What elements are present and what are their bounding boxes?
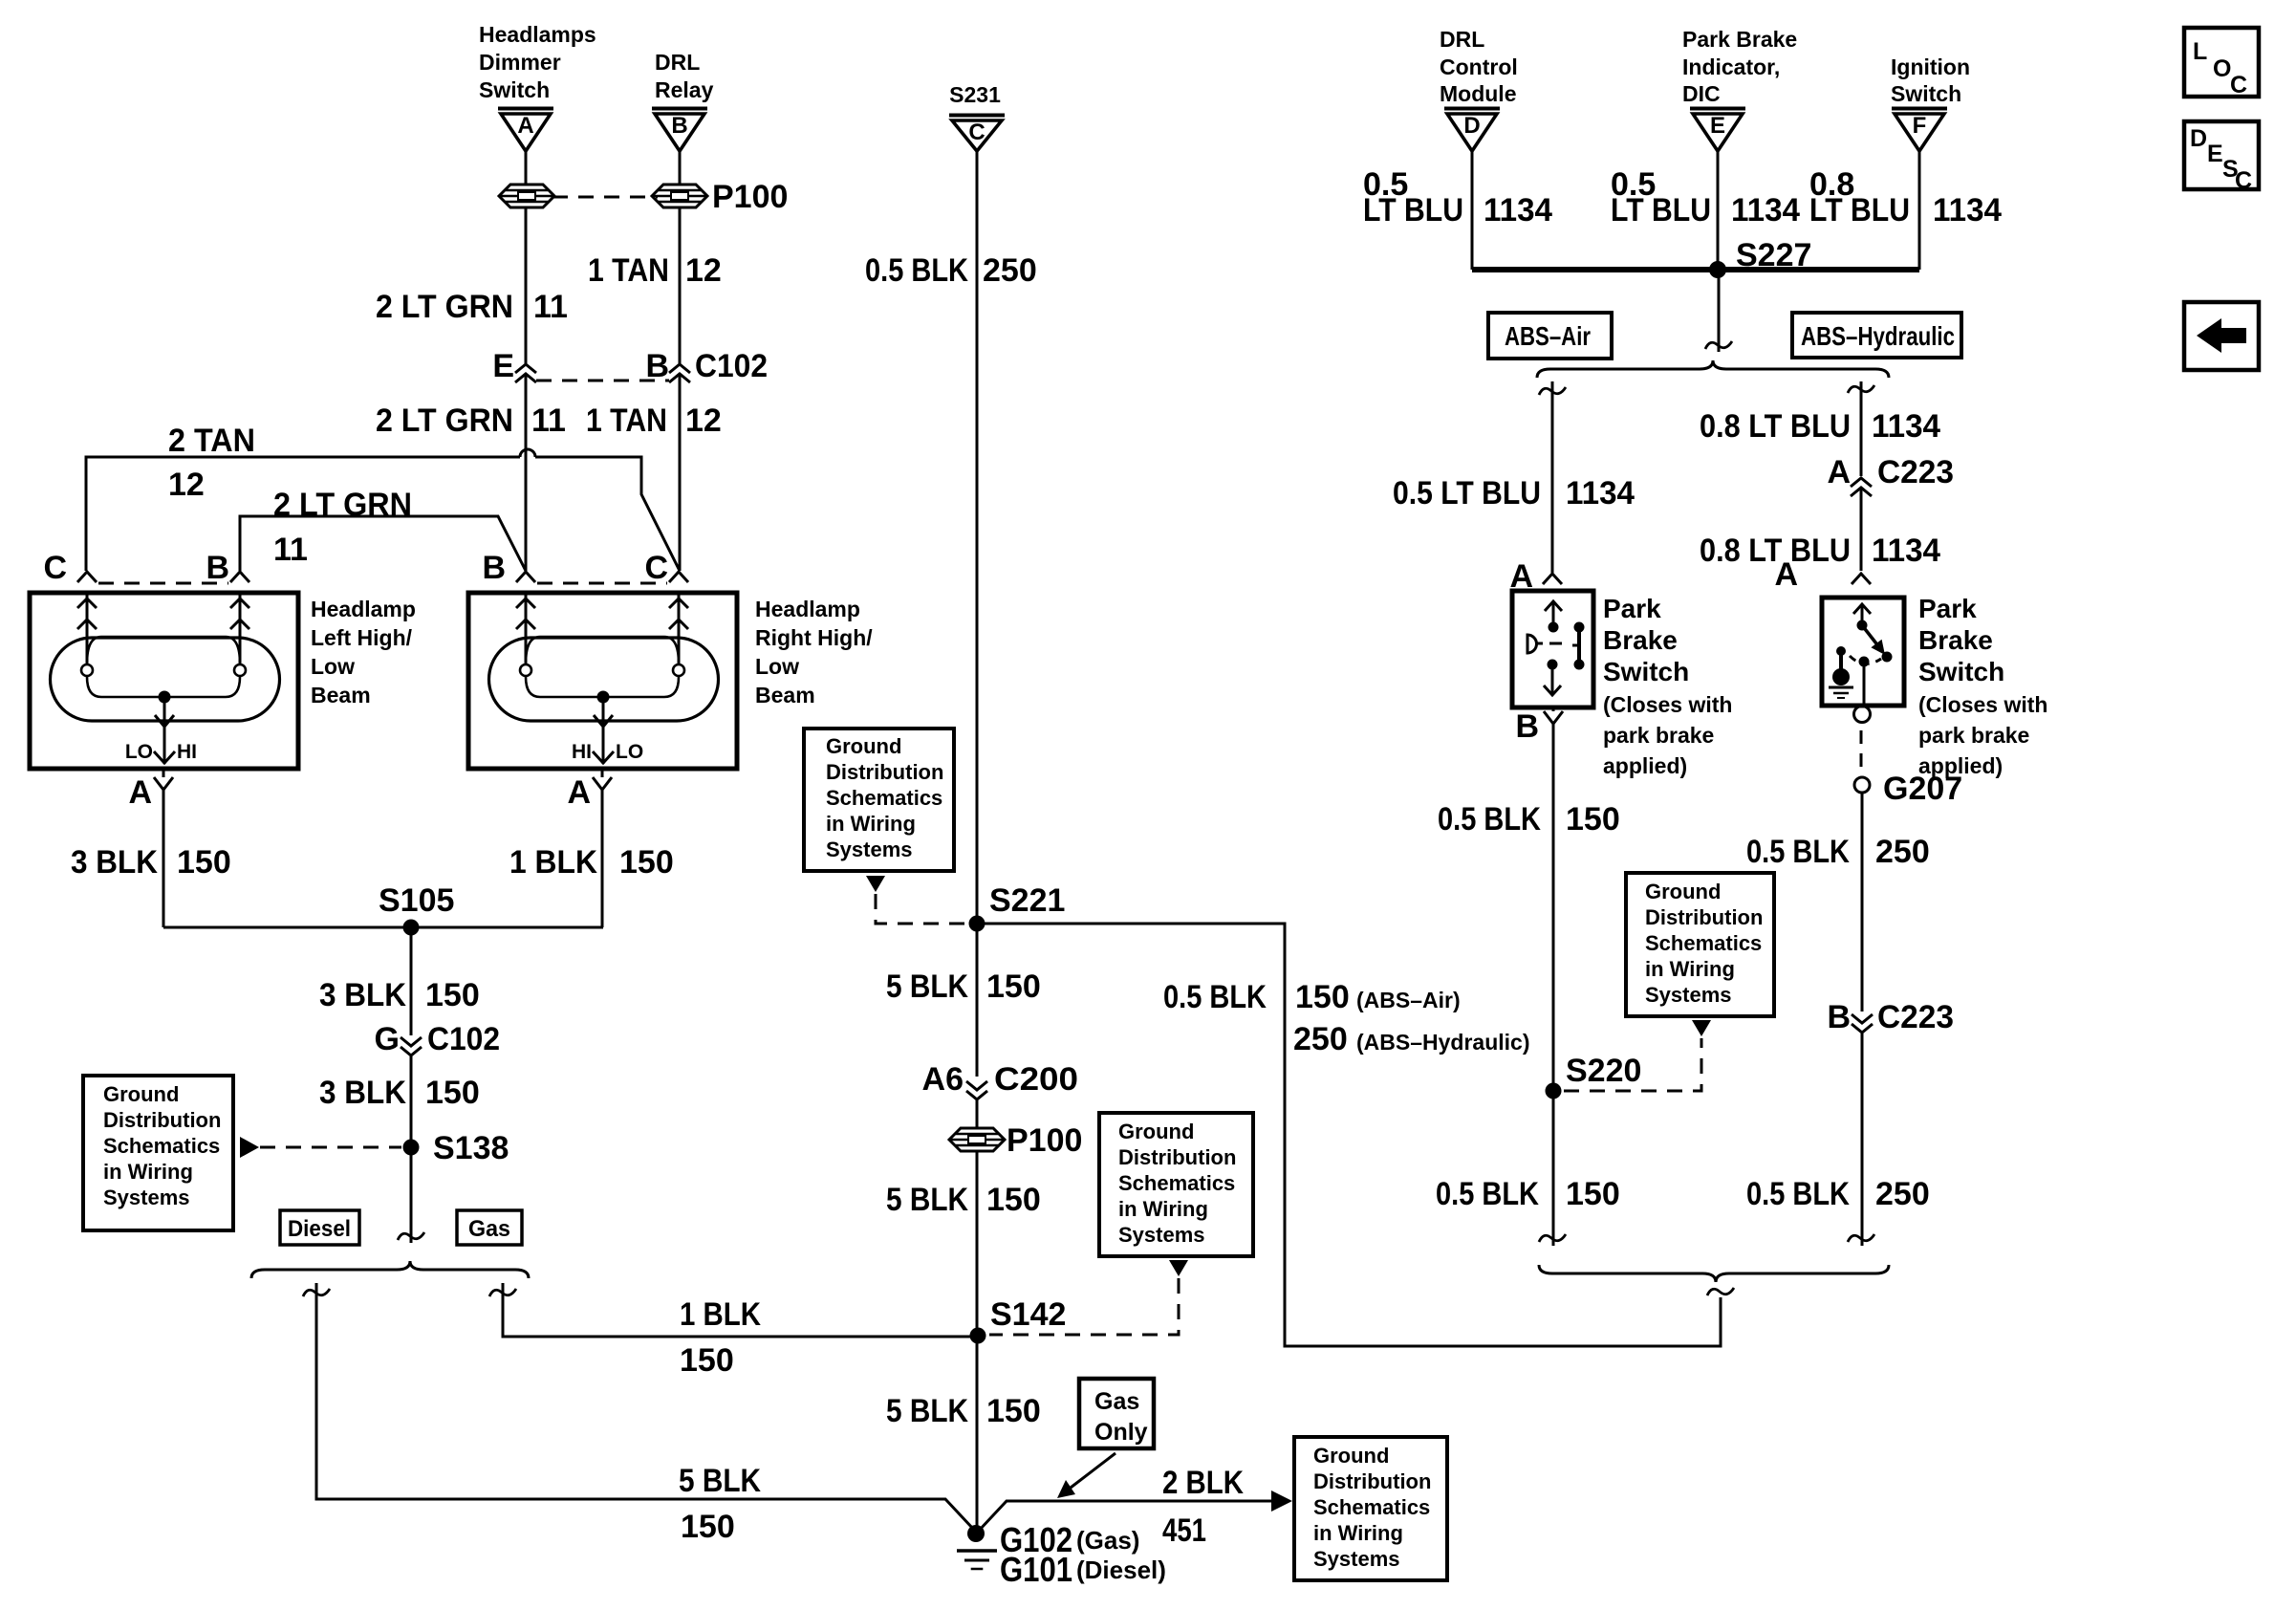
svg-text:DRL: DRL — [655, 50, 700, 75]
wire from triangle D to S227 — [1471, 150, 1474, 270]
dashed tie C102 — [536, 380, 669, 382]
svg-text:Distribution: Distribution — [1645, 905, 1763, 929]
svg-text:C: C — [968, 120, 985, 145]
svg-text:0.5 BLK: 0.5 BLK — [1746, 1176, 1850, 1212]
DESC reference box — [2184, 121, 2259, 189]
svg-text:DRL: DRL — [1440, 27, 1484, 52]
svg-text:Switch: Switch — [1891, 81, 1961, 106]
svg-text:5 BLK: 5 BLK — [886, 968, 968, 1005]
grommet P100 (right) — [652, 185, 707, 207]
wire S142 to ground G102/G101 — [976, 1336, 979, 1532]
svg-text:O: O — [2213, 55, 2231, 82]
svg-text:C102: C102 — [695, 348, 768, 384]
svg-text:11: 11 — [533, 289, 568, 325]
svg-text:DIC: DIC — [1682, 81, 1721, 106]
svg-text:1134: 1134 — [1872, 408, 1940, 445]
svg-text:applied): applied) — [1603, 753, 1687, 778]
svg-text:2 LT GRN: 2 LT GRN — [376, 289, 513, 325]
svg-text:P100: P100 — [1007, 1122, 1082, 1159]
svg-text:1134: 1134 — [1933, 192, 2002, 228]
arrow from right reference box — [1692, 1020, 1711, 1036]
svg-text:Gas: Gas — [1094, 1388, 1139, 1415]
svg-text:E: E — [492, 348, 514, 384]
svg-text:Gas: Gas — [468, 1216, 510, 1242]
svg-text:12: 12 — [685, 402, 722, 439]
svg-text:0.5 BLK: 0.5 BLK — [1163, 979, 1267, 1015]
svg-text:B: B — [206, 550, 229, 586]
svg-text:1 TAN: 1 TAN — [588, 252, 669, 289]
svg-text:LT BLU: LT BLU — [1809, 192, 1910, 228]
svg-text:Systems: Systems — [1645, 983, 1732, 1007]
switch output circle — [1854, 707, 1871, 723]
dashed reference line to S138 — [260, 1146, 401, 1149]
dashed reference line to S221 — [876, 894, 967, 924]
connector triangle D (DRL Control Module) — [1444, 107, 1500, 111]
grommet P100 center — [949, 1128, 1005, 1151]
svg-text:S142: S142 — [990, 1296, 1066, 1333]
svg-text:Right High/: Right High/ — [755, 625, 873, 650]
svg-text:Indicator,: Indicator, — [1682, 54, 1780, 79]
park brake switch hydraulic internals — [1861, 606, 1864, 622]
svg-text:5 BLK: 5 BLK — [886, 1393, 968, 1429]
svg-text:3 BLK: 3 BLK — [319, 977, 406, 1013]
wire end squiggle above Diesel/Gas brace — [398, 1232, 424, 1240]
park brake switch box (hydraulic) — [1822, 598, 1904, 706]
wire 2 LT GRN to left headlamp pin B — [240, 516, 526, 571]
svg-text:0.5 LT BLU: 0.5 LT BLU — [1393, 475, 1541, 511]
Diesel option box — [280, 1210, 359, 1245]
svg-text:0.5 BLK: 0.5 BLK — [1438, 801, 1541, 838]
wire ABS-Hydraulic branch down to C223 — [1860, 381, 1863, 476]
wire 2 LT GRN from C102 E to right headlamp pin B — [525, 374, 528, 571]
right headlamp box Headlamp right High/Low Beam — [468, 593, 737, 769]
arrow from center reference box — [866, 876, 885, 892]
svg-text:Headlamp: Headlamp — [311, 597, 416, 621]
Diesel branch squiggle — [303, 1289, 330, 1296]
back arrow box — [2184, 302, 2259, 370]
svg-text:C200: C200 — [994, 1061, 1078, 1098]
wire from triangle E to S227 — [1717, 150, 1720, 270]
svg-text:1 BLK: 1 BLK — [509, 844, 597, 881]
svg-text:150: 150 — [1566, 1176, 1620, 1212]
svg-text:Distribution: Distribution — [826, 760, 943, 784]
svg-text:LT BLU: LT BLU — [1611, 192, 1711, 228]
left headlamp internal pin chevrons — [86, 593, 89, 664]
wire G207 down to C223 B — [1861, 793, 1864, 1012]
svg-text:1 BLK: 1 BLK — [680, 1296, 761, 1333]
ground distribution reference box center — [804, 729, 954, 871]
svg-text:Relay: Relay — [655, 77, 714, 102]
svg-text:Beam: Beam — [755, 683, 815, 707]
wire 2 BLK 451 to ground reference — [979, 1501, 1271, 1531]
svg-text:in Wiring: in Wiring — [103, 1160, 193, 1184]
svg-text:D: D — [1463, 113, 1480, 139]
wire from triangle A to connector C102 pin E — [525, 150, 528, 363]
svg-text:G101: G101 — [1000, 1550, 1072, 1589]
Diesel branch ground wire 5 BLK 150 — [316, 1283, 973, 1529]
svg-text:2 LT GRN: 2 LT GRN — [376, 402, 513, 439]
ABS-Hydraulic branch squiggle — [1848, 385, 1874, 393]
svg-text:B: B — [1515, 708, 1539, 745]
dashed tie P100 — [552, 196, 658, 199]
svg-text:150: 150 — [986, 1182, 1041, 1218]
wire from triangle F to S227 — [1918, 150, 1921, 270]
svg-text:Beam: Beam — [311, 683, 371, 707]
svg-text:(Closes with: (Closes with — [1918, 692, 2047, 717]
splice S142 dot — [970, 1328, 986, 1344]
svg-text:C: C — [644, 550, 668, 586]
svg-text:F: F — [1913, 113, 1927, 139]
svg-text:Systems: Systems — [1313, 1547, 1400, 1571]
svg-text:150: 150 — [619, 844, 674, 881]
dashed reference line from S220 — [1564, 1038, 1701, 1091]
svg-text:Left High/: Left High/ — [311, 625, 413, 650]
ABS-Hydraulic branch end squiggle — [1848, 1234, 1874, 1242]
left headlamp bulb outline — [51, 638, 280, 721]
svg-text:S221: S221 — [989, 882, 1065, 919]
connector triangle A (Headlamps Dimmer Switch feed) — [498, 107, 553, 111]
svg-text:Distribution: Distribution — [103, 1108, 221, 1132]
ground collection brace bottom right — [1539, 1265, 1889, 1282]
svg-text:5 BLK: 5 BLK — [886, 1182, 968, 1218]
right headlamp internal pin chevrons — [525, 593, 528, 664]
wire ABS-Air branch down to park brake switch — [1551, 381, 1554, 573]
ground splice G207 circle — [1854, 777, 1870, 793]
svg-text:Only: Only — [1094, 1419, 1148, 1446]
svg-text:0.8 LT BLU: 0.8 LT BLU — [1700, 408, 1851, 445]
svg-text:E: E — [2207, 141, 2223, 167]
right headlamp common dot and down arrow — [597, 691, 610, 704]
right headlamp filaments — [526, 637, 679, 664]
brace output squiggle — [1707, 1288, 1734, 1295]
svg-text:Low: Low — [755, 654, 799, 679]
splice S227 trunk wire — [1472, 267, 1919, 272]
svg-text:3 BLK: 3 BLK — [71, 844, 158, 881]
svg-text:Schematics: Schematics — [826, 786, 942, 810]
svg-text:Switch: Switch — [1603, 657, 1689, 686]
svg-text:Systems: Systems — [826, 838, 913, 861]
wire from park brake switch air to S220 — [1552, 724, 1555, 1246]
svg-text:1134: 1134 — [1566, 475, 1635, 511]
dashed wire to G207 — [1860, 730, 1863, 776]
svg-text:Ground: Ground — [1313, 1444, 1389, 1468]
wire from left headlamp pin A to S105 — [162, 790, 165, 927]
svg-text:3 BLK: 3 BLK — [319, 1075, 406, 1111]
grommet P100 (left) — [499, 185, 554, 207]
svg-text:G207: G207 — [1883, 771, 1962, 807]
svg-text:A: A — [1774, 556, 1798, 593]
ABS-Air box — [1488, 313, 1612, 359]
svg-text:Switch: Switch — [1918, 657, 2004, 686]
svg-text:1134: 1134 — [1484, 192, 1552, 228]
svg-text:(Diesel): (Diesel) — [1076, 1556, 1166, 1584]
svg-text:12: 12 — [168, 467, 205, 503]
svg-text:A: A — [517, 113, 533, 139]
svg-text:ABS–Air: ABS–Air — [1505, 321, 1591, 351]
left headlamp filaments — [87, 637, 240, 664]
svg-text:B: B — [1827, 999, 1851, 1035]
svg-text:A: A — [567, 774, 591, 811]
wire 0.5 BLK 250 from S231 to S221 — [976, 150, 979, 924]
svg-text:2 TAN: 2 TAN — [168, 423, 255, 459]
svg-text:B: B — [645, 348, 669, 384]
splice S138 dot — [403, 1140, 420, 1156]
svg-text:Park: Park — [1918, 594, 1977, 623]
left headlamp dashed connector tie — [98, 582, 228, 585]
park brake switch box (air) — [1512, 591, 1593, 707]
svg-text:150: 150 — [1566, 801, 1620, 838]
splice S221 dot — [969, 916, 986, 932]
svg-text:C223: C223 — [1877, 999, 1954, 1035]
splice S105 horizontal wire — [163, 926, 603, 929]
ground junction dot G102/G101 — [967, 1525, 985, 1542]
svg-text:250: 250 — [1875, 1176, 1930, 1212]
svg-text:Brake: Brake — [1918, 625, 1993, 655]
splice S227 dot — [1709, 261, 1726, 278]
svg-text:Schematics: Schematics — [1313, 1495, 1430, 1519]
wire 2 TAN to left headlamp pin C — [86, 457, 520, 571]
Gas Only pointer arrow — [1071, 1453, 1116, 1488]
svg-text:0.5 BLK: 0.5 BLK — [865, 252, 968, 289]
Gas option box — [457, 1210, 522, 1245]
svg-text:B: B — [671, 113, 687, 139]
svg-text:451: 451 — [1162, 1512, 1206, 1549]
svg-text:(Gas): (Gas) — [1076, 1526, 1139, 1555]
Diesel/Gas option brace — [251, 1261, 529, 1278]
svg-text:LO: LO — [616, 741, 643, 763]
ABS-Hydraulic box — [1792, 313, 1961, 358]
splice S105 junction dot — [403, 920, 420, 936]
svg-text:Distribution: Distribution — [1118, 1145, 1236, 1169]
right headlamp dashed connector tie — [537, 582, 667, 585]
svg-text:A: A — [128, 774, 152, 811]
svg-text:S231: S231 — [949, 82, 1001, 107]
wire C223 B down to brace — [1861, 1033, 1864, 1246]
right headlamp bulb outline — [488, 638, 718, 721]
svg-text:11: 11 — [273, 532, 308, 568]
svg-text:Brake: Brake — [1603, 625, 1678, 655]
svg-text:Schematics: Schematics — [1118, 1171, 1235, 1195]
svg-text:G: G — [375, 1021, 400, 1057]
svg-text:Park: Park — [1603, 594, 1661, 623]
dashed reference line to S142 — [989, 1278, 1179, 1335]
svg-text:Ground: Ground — [1645, 880, 1721, 903]
Gas branch squiggle — [489, 1289, 516, 1296]
connector triangle E (Park Brake Indicator) — [1690, 107, 1745, 111]
LOC reference box — [2184, 28, 2259, 97]
Gas branch wire 1 BLK 150 to S142 — [503, 1283, 978, 1337]
wire C200 to S142 — [976, 1100, 979, 1334]
svg-text:Ground: Ground — [826, 734, 901, 758]
svg-text:150: 150 — [425, 977, 480, 1013]
right headlamp connector pins — [516, 572, 535, 582]
svg-text:150: 150 — [986, 968, 1041, 1005]
svg-text:150: 150 — [177, 844, 231, 881]
svg-text:park brake: park brake — [1603, 723, 1714, 748]
svg-text:B: B — [482, 550, 506, 586]
svg-text:S220: S220 — [1566, 1053, 1641, 1089]
wire 1 TAN from C102 B down — [679, 374, 682, 571]
svg-text:Schematics: Schematics — [1645, 931, 1762, 955]
svg-text:A: A — [1827, 454, 1851, 490]
left headlamp common dot and down arrow — [159, 691, 171, 704]
wire from C102 G to S138 — [410, 1056, 413, 1243]
svg-text:150: 150 — [425, 1075, 480, 1111]
svg-text:1134: 1134 — [1731, 192, 1800, 228]
svg-text:L: L — [2193, 38, 2207, 65]
svg-text:Dimmer: Dimmer — [479, 50, 561, 75]
svg-text:2 BLK: 2 BLK — [1162, 1465, 1244, 1501]
svg-text:Switch: Switch — [479, 77, 550, 102]
connector triangle B (DRL Relay feed) — [652, 107, 707, 111]
arrow from left reference box — [240, 1137, 259, 1158]
svg-text:Ground: Ground — [1118, 1120, 1194, 1143]
svg-text:250: 250 — [1293, 1021, 1348, 1057]
svg-text:S227: S227 — [1736, 237, 1811, 273]
svg-text:0.5 BLK: 0.5 BLK — [1746, 834, 1850, 870]
wire from S227 down to ABS brace — [1718, 270, 1721, 352]
svg-text:C: C — [2235, 167, 2252, 194]
ground distribution reference box right — [1626, 873, 1774, 1016]
svg-text:HI: HI — [177, 741, 197, 763]
svg-text:250: 250 — [1875, 834, 1930, 870]
ABS-Air branch end squiggle — [1539, 1234, 1566, 1242]
wire S221 down to C200 — [976, 924, 979, 1077]
ground symbol — [957, 1549, 997, 1553]
ground distribution reference box lower middle — [1099, 1113, 1253, 1256]
svg-text:1134: 1134 — [1872, 533, 1940, 569]
svg-text:in Wiring: in Wiring — [1118, 1197, 1208, 1221]
svg-text:C: C — [2230, 72, 2247, 98]
svg-text:in Wiring: in Wiring — [1645, 957, 1735, 981]
svg-text:(ABS–Air): (ABS–Air) — [1356, 988, 1461, 1012]
svg-text:Schematics: Schematics — [103, 1134, 220, 1158]
svg-text:Systems: Systems — [103, 1186, 190, 1209]
svg-text:LO: LO — [125, 741, 153, 763]
Gas Only box — [1079, 1379, 1154, 1448]
svg-text:Diesel: Diesel — [288, 1216, 351, 1242]
svg-text:Ground: Ground — [103, 1082, 179, 1106]
svg-text:150: 150 — [680, 1342, 734, 1379]
svg-text:2 LT GRN: 2 LT GRN — [273, 487, 412, 523]
connector triangle C (S231 feed) — [949, 114, 1005, 118]
svg-text:Module: Module — [1440, 81, 1517, 106]
svg-text:LT BLU: LT BLU — [1363, 192, 1463, 228]
svg-text:(ABS–Hydraulic): (ABS–Hydraulic) — [1356, 1030, 1529, 1055]
wire from S105 down to C102 pin G — [410, 927, 413, 1035]
svg-text:D: D — [2190, 125, 2207, 152]
connector triangle F (Ignition Switch) — [1892, 107, 1947, 111]
svg-text:150: 150 — [681, 1509, 735, 1545]
svg-text:Headlamps: Headlamps — [479, 22, 596, 47]
svg-text:Systems: Systems — [1118, 1223, 1205, 1247]
svg-text:(Closes with: (Closes with — [1603, 692, 1732, 717]
ground distribution reference box left — [83, 1076, 233, 1230]
svg-text:C223: C223 — [1877, 454, 1954, 490]
wire from triangle B to connector C102 pin B — [679, 150, 682, 363]
svg-text:Control: Control — [1440, 54, 1518, 79]
left headlamp connector pins — [77, 572, 97, 582]
svg-text:Ignition: Ignition — [1891, 54, 1970, 79]
left headlamp box Headlamp left High/Low Beam — [30, 593, 298, 769]
wire C223 to park brake switch hydraulic — [1860, 489, 1863, 571]
svg-text:E: E — [1710, 113, 1725, 139]
svg-text:Park Brake: Park Brake — [1682, 27, 1797, 52]
splice S220 dot — [1546, 1083, 1562, 1099]
svg-text:in Wiring: in Wiring — [1313, 1521, 1403, 1545]
arrow from lower middle reference box — [1169, 1260, 1188, 1276]
svg-text:12: 12 — [685, 252, 722, 289]
ABS-Air branch squiggle — [1539, 387, 1566, 395]
svg-text:Distribution: Distribution — [1313, 1469, 1431, 1493]
svg-text:P100: P100 — [712, 179, 788, 215]
svg-text:Headlamp: Headlamp — [755, 597, 860, 621]
svg-text:C: C — [43, 550, 67, 586]
svg-text:C102: C102 — [427, 1021, 500, 1057]
ABS option brace — [1537, 360, 1889, 378]
svg-text:A6: A6 — [922, 1061, 964, 1098]
svg-text:150: 150 — [986, 1393, 1041, 1429]
svg-text:250: 250 — [983, 252, 1037, 289]
svg-text:Low: Low — [311, 654, 355, 679]
svg-text:S105: S105 — [379, 882, 454, 919]
svg-text:11: 11 — [531, 402, 566, 439]
S221 wire to ABS ground branch — [977, 924, 1721, 1346]
svg-text:HI: HI — [572, 741, 592, 763]
svg-text:0.5 BLK: 0.5 BLK — [1436, 1176, 1539, 1212]
svg-text:150: 150 — [1295, 979, 1350, 1015]
svg-text:5 BLK: 5 BLK — [679, 1463, 761, 1499]
svg-text:in Wiring: in Wiring — [826, 812, 916, 836]
svg-text:S138: S138 — [433, 1130, 509, 1166]
svg-text:ABS–Hydraulic: ABS–Hydraulic — [1801, 321, 1955, 351]
park brake switch air internals — [1552, 602, 1555, 624]
svg-text:park brake: park brake — [1918, 723, 2029, 748]
wire from right headlamp pin A to S105 — [601, 790, 604, 927]
ground distribution reference box bottom right — [1294, 1437, 1447, 1580]
svg-text:1 TAN: 1 TAN — [586, 402, 667, 439]
